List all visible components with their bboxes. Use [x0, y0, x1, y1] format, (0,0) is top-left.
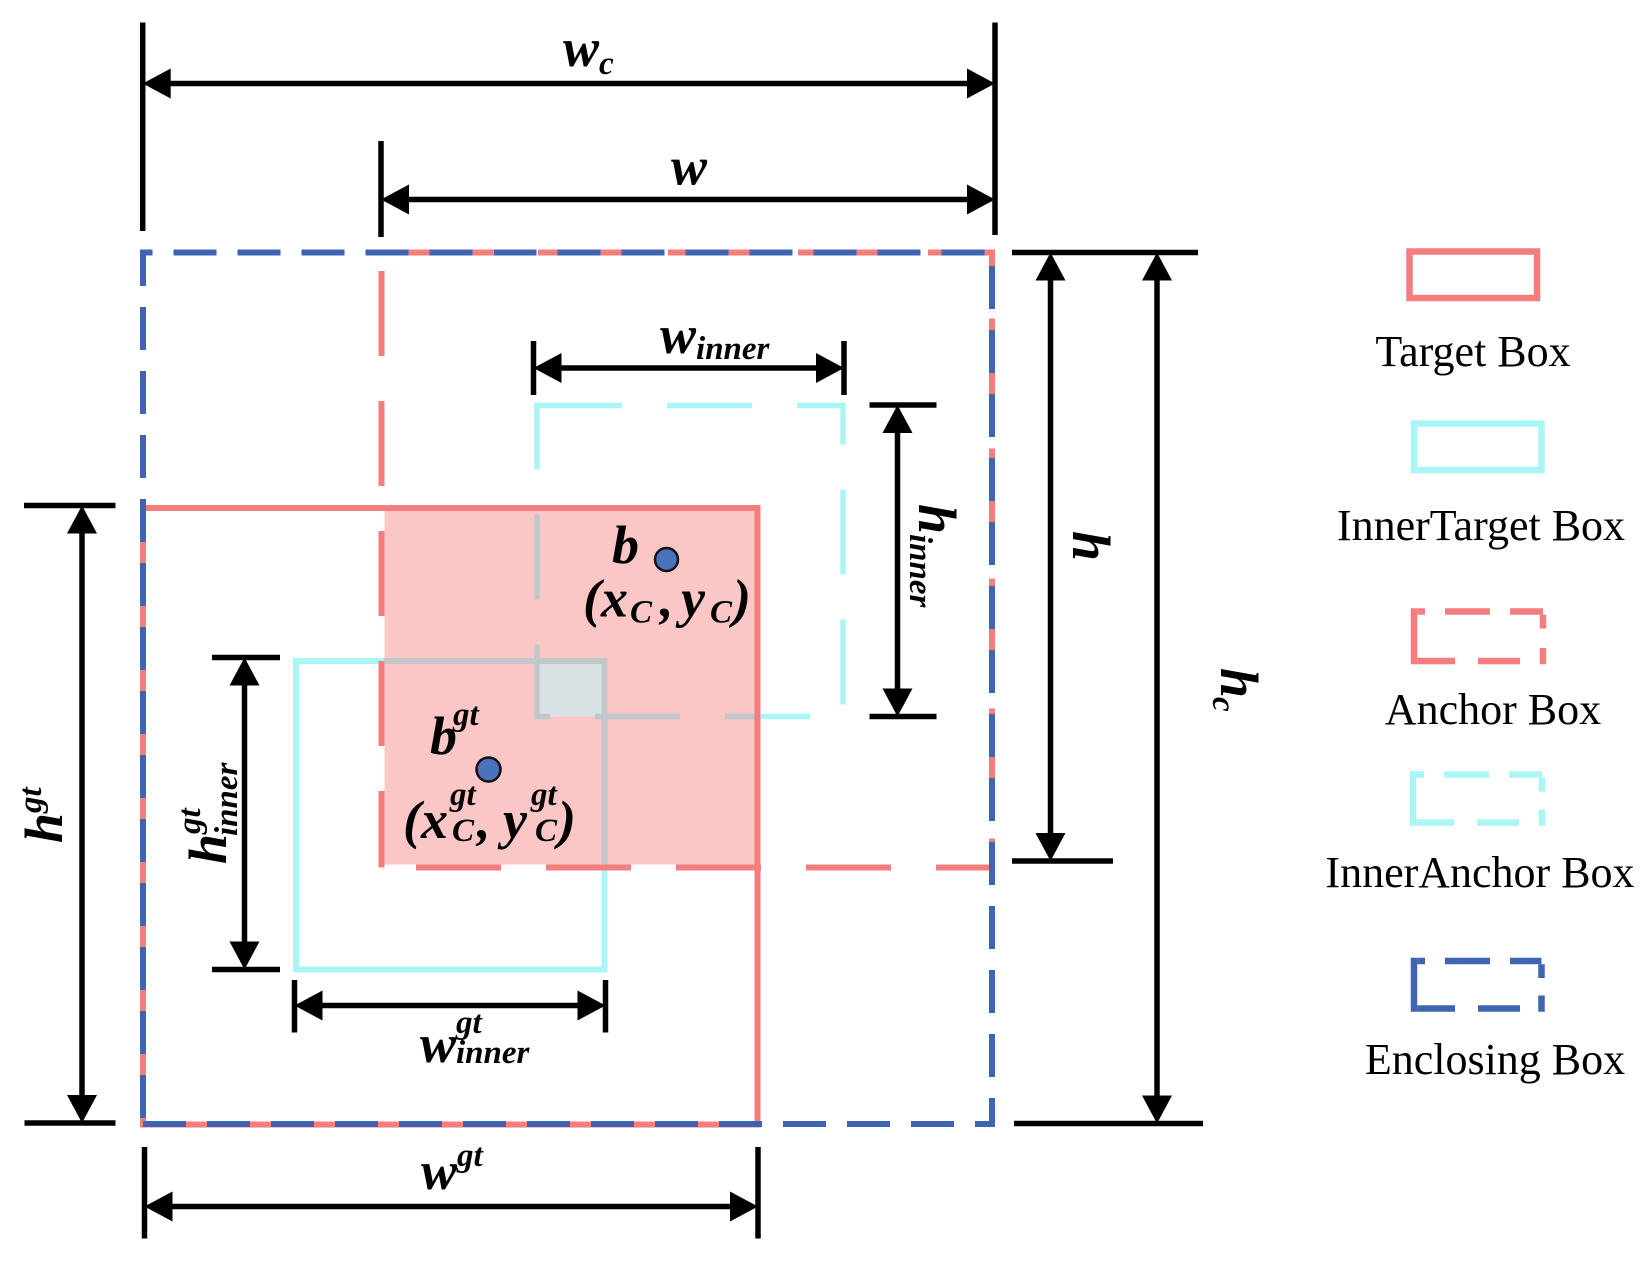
svg-text:gt: gt	[172, 808, 208, 836]
arrow w_inner	[560, 365, 817, 371]
legend: InnerTarget Box swatch	[1414, 424, 1542, 471]
dimension ticks	[24, 23, 1203, 1239]
svg-text:(x: (x	[583, 569, 628, 629]
pink intersection fill (Target ∩ Anchor)	[385, 511, 755, 865]
svg-text:inner: inner	[902, 534, 938, 609]
tick w left	[378, 141, 384, 237]
Target box (solid salmon)	[143, 508, 758, 1125]
arrow h_gt	[79, 532, 85, 1096]
svg-text:h: h	[1061, 531, 1121, 561]
tick hgt_inner bottom	[212, 967, 280, 973]
tick hgt bottom	[25, 1120, 116, 1126]
tick hc bottom	[1014, 1121, 1203, 1127]
svg-text:Anchor Box: Anchor Box	[1385, 685, 1601, 734]
label h_gt (rotated)	[13, 787, 74, 844]
tick w_inner right	[841, 341, 847, 395]
svg-text:(x: (x	[403, 790, 448, 850]
point b	[655, 548, 678, 571]
svg-text:h: h	[178, 834, 238, 864]
svg-text:InnerAnchor Box: InnerAnchor Box	[1325, 848, 1634, 897]
svg-text:inner: inner	[456, 1035, 531, 1071]
svg-text:Enclosing Box: Enclosing Box	[1365, 1035, 1625, 1084]
svg-text:h: h	[907, 504, 967, 534]
svg-text:,: ,	[475, 790, 491, 850]
tick h bottom	[1012, 858, 1113, 864]
svg-text:w: w	[671, 137, 708, 197]
arrow h_inner	[895, 431, 901, 690]
tick h/hc top	[1012, 250, 1198, 256]
InnerTarget box (solid cyan)	[296, 661, 605, 970]
arrow h_gt_inner	[242, 684, 248, 943]
label h_inner (rotated)	[902, 504, 967, 609]
svg-text:InnerTarget Box: InnerTarget Box	[1337, 501, 1625, 550]
muted gray portions of inner boxes under the pink fill	[296, 406, 843, 970]
svg-text:,: ,	[658, 569, 674, 629]
legend: InnerAnchor Box swatch	[1413, 771, 1542, 826]
svg-text:gt: gt	[452, 697, 480, 733]
svg-text:c: c	[1205, 697, 1241, 712]
tick wgt left	[142, 1147, 148, 1239]
svg-text:gt: gt	[449, 777, 477, 813]
arrow w_gt	[171, 1204, 731, 1210]
svg-text:h: h	[1209, 668, 1269, 698]
tick wc right	[992, 23, 998, 236]
gray inner intersection square (InnerTarget ∩ InnerAnchor)	[537, 661, 605, 717]
svg-text:b: b	[612, 515, 639, 575]
svg-text:w: w	[420, 1014, 457, 1074]
tick h_inner bottom	[870, 714, 937, 720]
arrow w_c	[170, 81, 968, 87]
arrow h	[1048, 279, 1054, 834]
tick w_inner left	[531, 341, 537, 395]
InnerAnchor box (dashed cyan)	[537, 406, 843, 717]
label h (rotated)	[1061, 531, 1121, 561]
legend: Enclosing Box swatch	[1414, 958, 1542, 1012]
tick hgt top	[24, 503, 116, 509]
dimension arrows	[67, 69, 1172, 1222]
tick hgt_inner top	[212, 655, 280, 661]
svg-text:h: h	[14, 813, 74, 843]
svg-text:gt: gt	[456, 1138, 484, 1174]
svg-text:Target Box: Target Box	[1375, 327, 1570, 376]
arrow w_gt_inner	[321, 1003, 579, 1009]
legend: Target Box swatch	[1410, 252, 1538, 299]
tick h_inner top	[870, 402, 937, 408]
svg-text:inner: inner	[209, 761, 245, 836]
arrow h_c	[1154, 279, 1160, 1097]
label h_c (rotated)	[1205, 668, 1269, 712]
svg-text:C: C	[630, 595, 653, 631]
Anchor box (dashed salmon)	[382, 253, 993, 868]
arrow w	[408, 197, 968, 203]
tick wgt_inner left	[292, 980, 298, 1033]
legend: Anchor Box swatch	[1414, 608, 1543, 664]
svg-text:C: C	[710, 595, 733, 631]
tick wgt_inner right	[603, 980, 609, 1033]
point b_gt	[477, 758, 501, 782]
tick wgt right	[755, 1147, 761, 1239]
svg-text:C: C	[452, 813, 475, 849]
tick wc left	[140, 23, 146, 232]
svg-text:C: C	[535, 813, 558, 849]
svg-text:gt: gt	[530, 777, 558, 813]
label h_gt_inner (rotated, stacked sup/sub)	[172, 761, 245, 864]
svg-text:gt: gt	[13, 787, 49, 815]
svg-text:w: w	[421, 1141, 458, 1201]
Enclosing box (dashed blue)	[143, 253, 992, 1125]
